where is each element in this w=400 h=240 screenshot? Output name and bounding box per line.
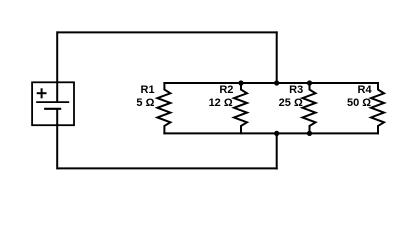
- svg-text:R3: R3: [289, 84, 303, 96]
- svg-text:R1: R1: [141, 84, 155, 96]
- wire: bottom-left vertical up to battery negative terminal: [56, 124, 58, 169]
- svg-text:5 Ω: 5 Ω: [136, 97, 154, 109]
- battery polarity + sign: [37, 88, 47, 98]
- wire: feed vertical from bottom rail down to bottom run: [276, 132, 278, 169]
- junction dot: bottom rail at feed: [274, 131, 279, 136]
- battery negative plate (short): [44, 108, 61, 110]
- svg-text:R2: R2: [219, 84, 233, 96]
- wire: bottom horizontal run: [57, 167, 278, 169]
- wire: top horizontal run: [57, 31, 278, 33]
- battery internal lead (cell to bottom wire): [56, 109, 58, 125]
- resistor R4: [371, 82, 384, 134]
- junction dot: bottom rail at R3: [307, 131, 312, 136]
- junction dot: top rail at R3: [307, 80, 312, 85]
- svg-text:R4: R4: [358, 84, 373, 96]
- wire: bottom rail of parallel resistor bank: [163, 132, 379, 134]
- svg-text:25 Ω: 25 Ω: [279, 97, 303, 109]
- resistor R1: [157, 82, 170, 134]
- resistor R3: [303, 82, 316, 134]
- wire: battery positive terminal up to top-left corner: [56, 31, 58, 83]
- battery internal lead (top wire into cell): [56, 82, 58, 102]
- junction dot: top rail at feed: [274, 80, 279, 85]
- resistor R2: [234, 82, 247, 134]
- svg-text:50 Ω: 50 Ω: [347, 97, 371, 109]
- wire: feed vertical from top run down to top rail: [276, 31, 278, 84]
- junction dot: top rail at R2: [238, 80, 243, 85]
- wire: top rail of parallel resistor bank: [163, 82, 379, 84]
- battery (voltage source) enclosure box: [32, 82, 74, 125]
- svg-text:12 Ω: 12 Ω: [209, 97, 233, 109]
- battery positive plate (long): [36, 101, 69, 103]
